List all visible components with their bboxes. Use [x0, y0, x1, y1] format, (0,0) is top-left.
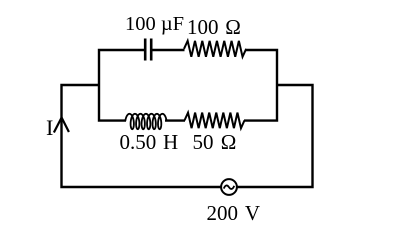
ac source sine symbol: [224, 185, 234, 188]
wire capacitor to resistor: [152, 49, 184, 51]
resistor R1 100 ohm zigzag: [184, 41, 246, 57]
label I: [46, 117, 53, 139]
current arrow head: [54, 118, 69, 133]
ac source V1 circle: [221, 179, 237, 195]
wire top branch right lead + right inner vertical + bottom branch right lead: [244, 50, 277, 121]
label 100 uF: [125, 14, 184, 35]
resistor R2 50 ohm zigzag: [185, 113, 245, 129]
capacitor C1 plates: [145, 39, 151, 61]
wire outer loop: left stub, left vertical, bottom, right vertical, right stub: [62, 85, 313, 187]
label 200 V: [207, 203, 261, 224]
label 50 ohm: [193, 132, 237, 153]
label 0.50 H: [120, 132, 179, 153]
inductor L1 0.50 H coil: [125, 114, 166, 129]
wire top branch left lead + left inner vertical + bottom branch left lead: [99, 50, 144, 121]
wire inductor to resistor: [165, 119, 185, 121]
label 100 ohm: [187, 17, 241, 38]
